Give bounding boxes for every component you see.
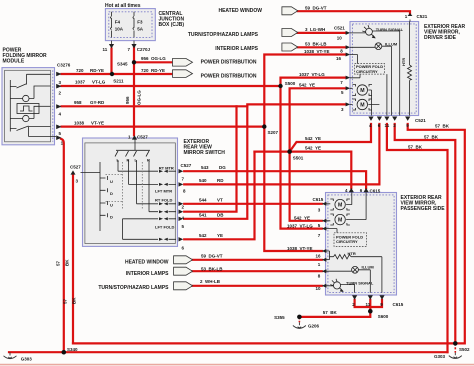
svg-text:542 YE: 542 YE	[305, 145, 321, 150]
svg-text:1038 VT-YE: 1038 VT-YE	[287, 246, 313, 251]
svg-text:F4: F4	[115, 20, 121, 25]
svg-text:LFT FOLD: LFT FOLD	[155, 224, 174, 229]
svg-text:C521: C521	[417, 14, 428, 19]
svg-text:542 YE: 542 YE	[294, 215, 310, 220]
svg-text:G303: G303	[21, 356, 33, 361]
svg-text:57: 57	[56, 260, 61, 266]
svg-text:HEATED WINDOW: HEATED WINDOW	[125, 260, 169, 266]
svg-text:RD: RD	[217, 178, 224, 183]
svg-text:543: 543	[201, 165, 209, 170]
svg-text:MIRROR SWITCH: MIRROR SWITCH	[184, 150, 226, 156]
svg-text:1038 VT-YE: 1038 VT-YE	[304, 49, 330, 54]
svg-text:POWER DISTRIBUTION: POWER DISTRIBUTION	[201, 74, 257, 80]
svg-text:GY-RD: GY-RD	[90, 100, 105, 105]
svg-text:S207: S207	[268, 130, 279, 135]
svg-text:M: M	[360, 103, 364, 109]
svg-text:S355: S355	[274, 315, 285, 320]
svg-text:720 RD-YE: 720 RD-YE	[141, 68, 165, 73]
svg-text:3 LG-WH: 3 LG-WH	[305, 27, 325, 32]
svg-text:U: U	[110, 203, 113, 208]
svg-text:R: R	[147, 158, 150, 163]
svg-text:10: 10	[337, 35, 343, 40]
svg-text:11: 11	[366, 302, 371, 307]
svg-text:OG-LG: OG-LG	[137, 90, 142, 105]
svg-text:57 BK: 57 BK	[424, 134, 439, 139]
svg-text:S500: S500	[285, 81, 296, 86]
svg-text:BK: BK	[72, 297, 77, 304]
svg-text:C3276: C3276	[57, 63, 71, 68]
svg-text:1037 VT-LG: 1037 VT-LG	[287, 224, 313, 229]
svg-text:POWER DISTRIBUTION: POWER DISTRIBUTION	[201, 60, 257, 66]
svg-text:S345: S345	[117, 61, 128, 66]
svg-text:1037 VT-LG: 1037 VT-LG	[299, 72, 325, 77]
svg-text:16: 16	[316, 254, 322, 259]
svg-text:57 BK: 57 BK	[323, 310, 338, 315]
svg-text:540: 540	[199, 178, 207, 183]
svg-text:RT MTR: RT MTR	[159, 165, 174, 170]
svg-text:HEATED WINDOW: HEATED WINDOW	[218, 8, 262, 14]
svg-text:2 WH-LB: 2 WH-LB	[200, 279, 221, 284]
svg-text:57 BK: 57 BK	[408, 144, 423, 149]
svg-text:S211: S211	[113, 78, 124, 83]
svg-text:1037: 1037	[75, 80, 86, 85]
svg-text:956: 956	[125, 96, 130, 104]
svg-text:53 BK-LB: 53 BK-LB	[201, 267, 223, 272]
svg-text:C521: C521	[415, 118, 426, 123]
svg-text:C527: C527	[137, 135, 148, 140]
svg-text:MODULE: MODULE	[3, 58, 25, 64]
svg-text:C521: C521	[334, 26, 345, 31]
svg-text:57 BK: 57 BK	[435, 123, 450, 128]
svg-text:BK: BK	[65, 259, 70, 266]
svg-text:53 BK-LB: 53 BK-LB	[305, 42, 327, 47]
svg-text:ILLUM: ILLUM	[362, 265, 375, 270]
svg-text:G206: G206	[308, 324, 320, 329]
svg-text:DRIVER SIDE: DRIVER SIDE	[424, 35, 457, 41]
svg-text:VT: VT	[217, 197, 223, 202]
svg-text:G303: G303	[434, 354, 446, 359]
svg-text:RD-YE: RD-YE	[90, 68, 104, 73]
svg-text:C615: C615	[370, 188, 381, 193]
svg-text:D: D	[110, 191, 113, 196]
svg-text:INTERIOR LAMPS: INTERIOR LAMPS	[126, 271, 169, 277]
svg-text:TURN/STOP/HAZARD LAMPS: TURN/STOP/HAZARD LAMPS	[98, 285, 169, 291]
svg-text:U: U	[110, 179, 113, 184]
svg-text:R: R	[127, 158, 130, 163]
svg-text:C615: C615	[393, 302, 404, 307]
svg-text:TURN/STOP/HAZARD LAMPS: TURN/STOP/HAZARD LAMPS	[188, 32, 259, 38]
svg-text:ILLUM: ILLUM	[385, 41, 398, 46]
svg-text:INTERIOR LAMPS: INTERIOR LAMPS	[215, 46, 258, 52]
svg-text:BOX (CJB): BOX (CJB)	[159, 22, 185, 28]
svg-text:CIRCUITRY: CIRCUITRY	[356, 69, 378, 74]
svg-text:5A: 5A	[137, 27, 144, 32]
svg-text:16: 16	[336, 56, 342, 61]
svg-text:VT-YE: VT-YE	[91, 120, 104, 125]
svg-text:M: M	[360, 88, 364, 94]
svg-text:1038: 1038	[74, 120, 85, 125]
svg-text:D: D	[110, 215, 113, 220]
svg-text:S502: S502	[459, 347, 470, 352]
svg-text:542 YE: 542 YE	[299, 83, 315, 88]
svg-text:HTR: HTR	[348, 251, 356, 256]
svg-text:M: M	[338, 218, 342, 224]
svg-text:541: 541	[199, 212, 207, 217]
svg-text:59 DG-VT: 59 DG-VT	[201, 254, 223, 259]
svg-text:VT-LG: VT-LG	[92, 80, 106, 85]
svg-text:10: 10	[316, 286, 322, 291]
svg-text:11: 11	[103, 47, 108, 52]
svg-text:F3: F3	[137, 20, 143, 25]
svg-text:TURN SIGNAL: TURN SIGNAL	[346, 280, 374, 285]
svg-text:C527: C527	[70, 165, 81, 170]
svg-text:CIRCUITRY: CIRCUITRY	[336, 239, 358, 244]
svg-text:S340: S340	[67, 347, 78, 352]
svg-text:956 OG-LG: 956 OG-LG	[141, 56, 166, 61]
svg-text:720: 720	[76, 68, 84, 73]
svg-text:C527: C527	[181, 163, 192, 168]
svg-text:S600: S600	[378, 314, 389, 319]
svg-text:S501: S501	[293, 155, 304, 160]
svg-text:M: M	[338, 203, 342, 209]
svg-text:57: 57	[63, 298, 68, 304]
svg-text:C615: C615	[313, 197, 324, 202]
svg-text:11: 11	[385, 123, 390, 128]
svg-text:TURN SIGNAL: TURN SIGNAL	[376, 27, 404, 32]
svg-text:DG: DG	[219, 165, 226, 170]
svg-text:10A: 10A	[115, 27, 124, 32]
svg-text:PASSENGER SIDE: PASSENGER SIDE	[401, 206, 446, 212]
svg-text:542 YE: 542 YE	[305, 136, 321, 141]
svg-text:LFT MTR: LFT MTR	[155, 188, 172, 193]
svg-text:Hot at all times: Hot at all times	[105, 3, 141, 9]
svg-text:C270J: C270J	[137, 47, 151, 52]
svg-text:RT FOLD: RT FOLD	[155, 198, 172, 203]
svg-text:YE: YE	[217, 233, 223, 238]
svg-text:958: 958	[74, 100, 82, 105]
svg-text:HTR: HTR	[401, 58, 406, 66]
svg-text:59 DG-VT: 59 DG-VT	[305, 5, 327, 10]
svg-text:542: 542	[199, 233, 207, 238]
svg-text:544: 544	[199, 197, 207, 202]
svg-text:DB: DB	[217, 212, 224, 217]
